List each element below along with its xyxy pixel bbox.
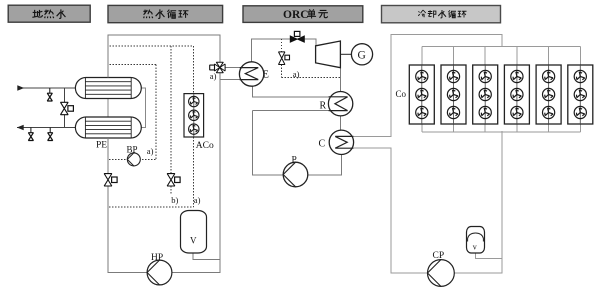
svg-text:Co: Co bbox=[396, 89, 407, 99]
svg-text:R: R bbox=[320, 101, 327, 112]
svg-text:ACo: ACo bbox=[196, 141, 214, 151]
svg-text:BP: BP bbox=[127, 145, 138, 155]
svg-text:ORC: ORC bbox=[283, 9, 309, 21]
svg-text:G: G bbox=[358, 50, 366, 62]
svg-text:HP: HP bbox=[151, 253, 163, 263]
svg-text:E: E bbox=[263, 70, 269, 81]
svg-text:C: C bbox=[319, 139, 326, 150]
svg-text:v: v bbox=[473, 243, 477, 252]
svg-text:PE: PE bbox=[96, 141, 107, 151]
svg-text:a): a) bbox=[210, 71, 217, 81]
svg-text:b): b) bbox=[171, 195, 178, 205]
svg-text:a): a) bbox=[147, 146, 154, 156]
svg-text:V: V bbox=[190, 236, 197, 246]
svg-text:P: P bbox=[292, 156, 297, 166]
svg-text:CP: CP bbox=[433, 251, 445, 261]
svg-text:a): a) bbox=[293, 69, 300, 79]
svg-text:a): a) bbox=[194, 195, 201, 205]
